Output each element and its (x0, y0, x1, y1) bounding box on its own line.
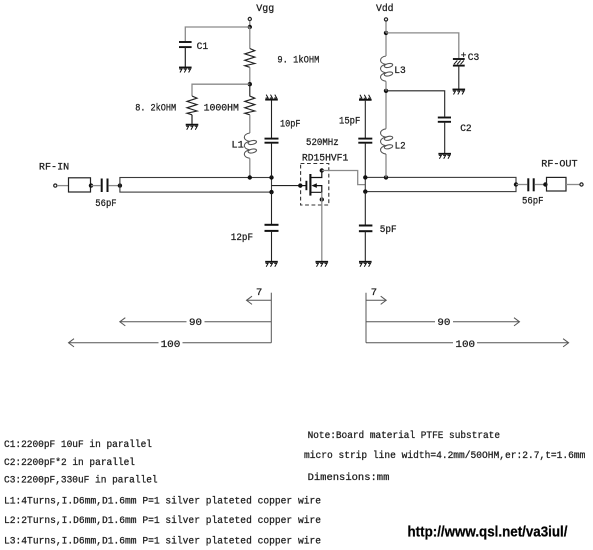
terminal Vgg (248, 17, 251, 20)
dimension left vertical (270, 293, 272, 343)
svg-text:C1:2200pF 10uF in parallel: C1:2200pF 10uF in parallel (4, 439, 152, 451)
svg-text:C2: C2 (460, 123, 472, 135)
svg-text:L2: L2 (395, 140, 406, 152)
dimension arrow 7 left (247, 296, 272, 304)
svg-text:90: 90 (189, 317, 202, 329)
wire bias node to R 8.2k (192, 84, 250, 96)
dimension line 100 left (69, 339, 272, 347)
wire Vdd node to C3 (386, 33, 459, 58)
junction L2 on output microstrip (384, 175, 388, 179)
wire L1 to input line (249, 158, 251, 177)
wire pad to C 56pF (91, 185, 101, 187)
svg-text:Note:Board material PTFE subst: Note:Board material PTFE substrate (308, 430, 500, 442)
wire junction to C2 (386, 91, 445, 117)
wire 56pF to output pad (535, 184, 546, 186)
wire C2 to ground (444, 122, 446, 153)
wire source to ground (321, 192, 323, 261)
svg-text:9. 1kOHM: 9. 1kOHM (277, 55, 319, 67)
wire 10pF to microstrip (271, 143, 273, 178)
svg-text:1000HM: 1000HM (204, 102, 239, 114)
svg-text:56pF: 56pF (522, 196, 544, 208)
dimension line 100 right (366, 339, 569, 347)
capacitor 10pF (265, 139, 279, 143)
capacitor 56pF output (528, 178, 533, 191)
ground below source (316, 262, 329, 267)
junction source (320, 197, 324, 201)
wire Vgg terminal to junction (249, 21, 251, 27)
ground inverted above 15pF (359, 95, 372, 100)
wire R8.2k to ground (191, 115, 193, 125)
svg-text:10pF: 10pF (280, 118, 301, 130)
ground inverted above 10pF (265, 95, 278, 100)
svg-text:L1: L1 (231, 140, 244, 152)
wire R100 to L1 (249, 115, 251, 133)
wire drain to output microstrip (322, 171, 366, 185)
svg-text:520MHz: 520MHz (306, 137, 339, 149)
inductor L1 (244, 133, 257, 158)
svg-text:RF-IN: RF-IN (39, 162, 69, 174)
svg-text:http://www.qsl.net/va3iul/: http://www.qsl.net/va3iul/ (408, 524, 568, 540)
junction output microstrip right (514, 182, 518, 186)
wire microstrip to 5pF (364, 192, 366, 225)
wire 12pF to ground (271, 231, 273, 261)
svg-text:C3:2200pF,330uF in parallel: C3:2200pF,330uF in parallel (4, 475, 158, 487)
ground below 12pF (265, 262, 278, 267)
svg-text:8. 2kOHM: 8. 2kOHM (135, 102, 176, 114)
svg-text:Dimensions:mm: Dimensions:mm (308, 472, 390, 484)
ground below C3 (453, 90, 466, 95)
svg-text:RF-OUT: RF-OUT (541, 158, 577, 170)
svg-text:L2:2Turns,I.D6mm,D1.6mm P=1 si: L2:2Turns,I.D6mm,D1.6mm P=1 silver plate… (4, 515, 321, 527)
wire pad to RF-OUT terminal (566, 184, 580, 186)
dimension arrow 7 right (366, 296, 386, 304)
inductor L3 (381, 56, 394, 81)
junction Vdd node (384, 31, 388, 35)
svg-text:L3: L3 (394, 65, 406, 77)
ground below 5pF (359, 262, 372, 267)
wire ground to 15pF (364, 101, 366, 138)
capacitor 12pF (265, 225, 279, 231)
svg-text:100: 100 (161, 339, 181, 351)
connector pad output (547, 177, 567, 191)
transistor Q1 RD15HVF1 (300, 171, 322, 196)
microstrip line output (365, 177, 516, 191)
connector pad input (69, 178, 91, 192)
capacitor C1 (179, 42, 192, 47)
svg-text:L1:4Turns,I.D6mm,D1.6mm P=1 si: L1:4Turns,I.D6mm,D1.6mm P=1 silver plate… (4, 496, 321, 508)
wire ground to 10pF (271, 101, 273, 139)
wire microstrip to gate (272, 185, 301, 187)
wire microstrip to output 56pF (516, 184, 527, 186)
junction L1 on microstrip (248, 175, 252, 179)
dimension label 100 right (453, 338, 477, 348)
svg-text:Vdd: Vdd (376, 3, 394, 15)
svg-text:C2:2200pF*2 in parallel: C2:2200pF*2 in parallel (4, 457, 135, 469)
dimension line 90 right (366, 318, 520, 326)
wire microstrip to 12pF (271, 192, 273, 224)
wire C56pF to microstrip (109, 185, 120, 187)
svg-text:RD15HVF1: RD15HVF1 (302, 153, 348, 165)
wire C1 to ground (184, 47, 186, 67)
wire Vgg node to C1 (185, 27, 250, 41)
wire 15pF to output microstrip (364, 143, 366, 178)
svg-text:56pF: 56pF (95, 198, 116, 210)
wire Vdd to L3 (385, 33, 387, 56)
svg-text:7: 7 (256, 287, 262, 299)
junction output pad (543, 182, 547, 186)
capacitor C3 electrolytic (453, 59, 465, 66)
junction L2 L3 C2 (384, 89, 388, 93)
resistor 8.2kOHM (187, 96, 197, 115)
terminal RF-IN (54, 184, 57, 187)
wire L2 to Vdd junction (385, 91, 387, 129)
dimension right vertical (365, 293, 367, 343)
svg-text:C3: C3 (468, 52, 480, 64)
wire 5pF to ground (364, 231, 366, 261)
junction input pad (89, 183, 93, 187)
svg-text:7: 7 (371, 287, 377, 299)
arrow body of Q1 (311, 183, 316, 188)
capacitor 15pF (358, 139, 372, 143)
svg-text:5pF: 5pF (380, 224, 397, 236)
wire R9.1k to bias junction (249, 67, 251, 84)
svg-text:15pF: 15pF (339, 115, 360, 127)
inductor L2 (381, 129, 394, 154)
ground for C1 (179, 68, 192, 73)
svg-text:+: + (461, 50, 467, 61)
junction 10pF on microstrip top (269, 175, 273, 179)
terminal RF-OUT (580, 183, 583, 186)
dimension label 90 right (435, 317, 453, 327)
ground for R8.2k (186, 125, 199, 130)
dimension label 90 left (187, 317, 205, 327)
svg-text:Vgg: Vgg (256, 3, 274, 15)
ground below C2 (438, 154, 451, 159)
junction bias node (248, 82, 252, 86)
wire Vdd terminal (385, 21, 387, 33)
svg-text:100: 100 (455, 339, 475, 351)
junction Vgg node (248, 25, 252, 29)
svg-text:12pF: 12pF (231, 232, 253, 244)
wire RF-IN terminal to connector (57, 185, 68, 187)
svg-text:micro strip line width=4.2mm/5: micro strip line width=4.2mm/50OHM,er:2.… (304, 450, 585, 462)
resistor 100OHM (245, 84, 255, 115)
package outline Q1 dashed (301, 164, 329, 206)
junction gate (298, 183, 302, 187)
microstrip line input (120, 178, 272, 193)
wire Vgg node to R 9.1k (249, 27, 251, 49)
junction drain (320, 168, 324, 172)
dimension line 90 left (120, 318, 271, 326)
terminal Vdd (384, 18, 387, 21)
svg-text:C1: C1 (197, 41, 209, 53)
capacitor 5pF (359, 226, 373, 232)
junction microstrip input left (118, 183, 122, 187)
svg-text:L3:4Turns,I.D6mm,D1.6mm P=1 si: L3:4Turns,I.D6mm,D1.6mm P=1 silver plate… (4, 535, 321, 547)
wire L2 to output microstrip (385, 154, 387, 177)
capacitor 56pF input (102, 179, 108, 193)
resistor 9.1kOHM (245, 49, 255, 68)
wire C3 to ground (458, 66, 460, 89)
junction 15pF on output microstrip top (363, 175, 367, 179)
junction 12pF on microstrip bottom (269, 190, 273, 194)
capacitor C2 (438, 118, 451, 122)
svg-text:90: 90 (437, 317, 450, 329)
junction 5pF on output microstrip bottom (363, 189, 367, 193)
dimension label 100 left (159, 338, 183, 348)
wire L3 to junction (385, 81, 387, 91)
